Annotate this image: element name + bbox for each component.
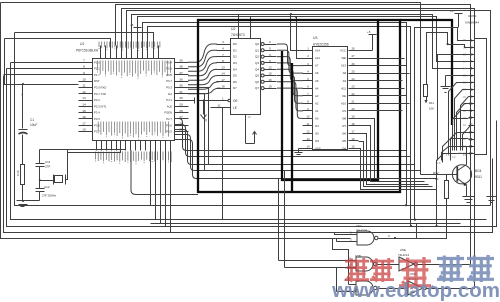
svg-text:14: 14 [221,72,225,76]
gate U5A 74HC00 [337,224,391,245]
svg-text:WE: WE [341,56,346,60]
wire top bus line 8 [148,27,411,227]
svg-text:37: 37 [179,71,183,75]
svg-text:9: 9 [83,71,85,75]
wire loop 3 [7,69,497,227]
svg-text:HY62C256: HY62C256 [313,43,329,47]
svg-text:U1: U1 [80,42,84,46]
ground U3 [295,149,303,157]
svg-text:13: 13 [221,65,225,69]
svg-text:A12: A12 [315,56,320,60]
wire top bus line 5 [132,15,469,69]
svg-text:XINBNJ44: XINBNJ44 [465,21,479,25]
svg-text:7: 7 [471,81,473,85]
svg-text:I03: I03 [315,139,319,143]
svg-text:Q0: Q0 [255,42,259,46]
wire U2 VCC from top bus [238,15,240,39]
svg-text:A11: A11 [341,86,346,90]
svg-text:12: 12 [306,130,310,134]
svg-text:D0: D0 [233,42,237,46]
svg-text:28: 28 [179,109,183,113]
svg-text:A8: A8 [343,71,347,75]
svg-text:U2: U2 [231,27,235,31]
svg-text:A5: A5 [315,79,319,83]
svg-text:19: 19 [82,128,86,132]
svg-text:D1: D1 [233,48,237,52]
svg-text:14: 14 [469,130,473,134]
svg-text:Q3: Q3 [255,61,259,65]
svg-text:16: 16 [268,78,272,82]
thick bus rect outer [198,20,400,192]
wire U1 P41 net down [175,88,209,165]
svg-text:P1.0: P1.0 [94,60,100,64]
svg-text:A6: A6 [315,71,319,75]
svg-text:14: 14 [306,145,310,149]
svg-text:17: 17 [82,121,86,125]
wire loop 2 [4,76,493,233]
svg-text:P3.2: P3.2 [94,98,100,102]
svg-text:74HC573: 74HC573 [231,33,245,37]
wire crystal to U1 [23,150,126,201]
wire loop 4 [11,63,487,220]
svg-text:11: 11 [469,109,473,113]
svg-text:I05: I05 [342,139,346,143]
svg-text:39: 39 [179,58,183,62]
watermark red characters [345,257,431,289]
svg-text:+5: +5 [130,23,134,27]
svg-text:I06: I06 [342,132,346,136]
wire U5A inputs [335,233,341,242]
svg-text:C12: C12 [44,185,50,189]
wire U3 right nets [359,59,437,190]
gate U5B 74HC00 [279,254,399,271]
power +5 U1 [130,23,142,31]
svg-text:P1.1: P1.1 [94,67,100,71]
wire U1 to U2 data fan [188,44,220,94]
wire U5B input verticals [279,171,285,268]
svg-text:11: 11 [82,84,85,88]
wire pi loop outer [415,28,469,220]
svg-text:D7: D7 [233,86,237,90]
svg-text:3: 3 [471,53,473,57]
svg-text:VSS: VSS [315,147,321,151]
connector J1 header 34pin [463,14,487,156]
svg-text:P0.4: P0.4 [166,60,172,64]
wire U1 left pin nets [4,63,79,75]
svg-text:P2.6: P2.6 [166,123,172,127]
svg-text:D2: D2 [233,55,237,59]
svg-text:17: 17 [221,78,225,82]
wire U1 bottom pins to bus [131,150,198,233]
wire U5A output to R12 [379,199,447,240]
svg-text:26: 26 [351,62,355,66]
svg-text:P3.6: P3.6 [94,123,100,127]
svg-text:OE: OE [233,99,238,103]
svg-text:P2.5: P2.5 [166,130,172,134]
svg-text:15: 15 [351,145,355,149]
svg-text:+5: +5 [367,30,371,34]
svg-text:A4: A4 [315,86,319,90]
svg-text:P3.3 INT1: P3.3 INT1 [94,104,107,108]
wire U1 P2 port nets right [175,119,437,179]
svg-text:16: 16 [82,115,86,119]
crystal X1 [54,175,66,185]
wire loop 5 [15,33,491,206]
svg-text:A3: A3 [315,94,319,98]
svg-text:20: 20 [351,107,355,111]
svg-text:27: 27 [351,54,355,58]
svg-text:13: 13 [82,96,86,100]
svg-text:EA: EA [168,92,172,96]
svg-text:16: 16 [469,144,473,148]
svg-text:11: 11 [307,122,310,126]
svg-text:29: 29 [179,103,183,107]
watermark blue characters [437,255,494,282]
wire top bus line 2 [116,5,471,265]
ground Q1 [463,191,475,203]
capacitor C11 [36,150,51,189]
svg-text:27P 32MHz: 27P 32MHz [42,194,57,198]
svg-text:24: 24 [351,77,355,81]
svg-text:D4: D4 [233,67,237,71]
capacitor C12 [36,185,57,201]
svg-text:38: 38 [179,65,183,69]
svg-text:Q6: Q6 [255,80,259,84]
svg-text:9: 9 [471,95,473,99]
svg-text:P3.0 RXD: P3.0 RXD [94,86,106,90]
resistor R12 [433,171,449,199]
svg-text:P3.4: P3.4 [94,111,100,115]
svg-text:D3: D3 [233,61,237,65]
capacitor C1 [19,83,79,165]
svg-text:R11: R11 [429,101,434,105]
svg-text:10uF: 10uF [30,123,37,127]
svg-text:A2: A2 [315,101,319,105]
svg-text:10K: 10K [429,107,434,111]
svg-text:VCC: VCC [340,49,346,53]
resistor R11 pullup [424,33,469,111]
svg-text:30: 30 [179,96,183,100]
svg-text:P0.7: P0.7 [166,79,172,83]
svg-text:17: 17 [351,130,355,134]
svg-text:D5: D5 [233,74,237,78]
svg-text:LE: LE [233,106,237,110]
svg-text:27P: 27P [45,165,50,169]
power -V symbol [201,101,209,123]
svg-text:4: 4 [471,60,473,64]
wire bus line mid [151,223,461,225]
svg-text:Q1: Q1 [255,48,259,52]
svg-text:P2.7: P2.7 [166,117,172,121]
svg-text:P0.6: P0.6 [166,73,172,77]
wire U5C input verticals [333,239,349,292]
junction dots [405,204,438,227]
svg-text:36: 36 [179,77,183,81]
resistor R1 [16,165,25,195]
svg-text:A0: A0 [315,116,319,120]
svg-text:I08: I08 [342,116,346,120]
svg-text:U5A: U5A [356,224,362,228]
svg-text:12: 12 [268,65,272,69]
wire Q1 collector [467,147,469,165]
svg-text:OE: OE [342,94,346,98]
svg-text:15: 15 [268,72,272,76]
svg-text:I02: I02 [315,132,319,136]
svg-text:15: 15 [82,109,86,113]
svg-text:7: 7 [83,58,85,62]
svg-text:P3.5: P3.5 [94,117,100,121]
svg-text:8: 8 [471,88,473,92]
svg-text:U5B: U5B [355,254,361,258]
svg-text:A14: A14 [315,49,320,53]
thick bus vertical [291,63,293,192]
svg-text:RST: RST [94,79,100,83]
gate U5F 74HC14 inverter [407,272,475,295]
ground left [17,195,31,207]
power +5 U3 [359,30,377,51]
svg-text:I04: I04 [342,147,346,151]
wire top bus line 6 [138,17,469,62]
wire outer loop [1,3,351,239]
wire top bus line 3 [122,9,475,289]
svg-text:1: 1 [471,38,473,42]
svg-text:5: 5 [471,67,473,71]
svg-text:10: 10 [306,115,310,119]
svg-text:CS: CS [342,109,346,113]
IC U1 microcontroller P87C51 [76,42,189,165]
svg-text:I01: I01 [315,124,319,128]
wire U3 pin2 from top bus [295,16,303,59]
transistor Q1 9013 [421,165,483,191]
IC U3 SRAM HY62C256 [303,36,359,151]
svg-text:www.edatop.com: www.edatop.com [331,279,500,302]
thick bus rect inner [282,21,378,180]
thick bus top extension [400,20,452,125]
svg-text:2: 2 [471,45,473,49]
svg-text:Q7: Q7 [255,86,259,90]
wire header bundle [437,55,471,227]
ground right edge [487,197,497,203]
svg-text:I07: I07 [342,124,346,128]
svg-text:6: 6 [471,74,473,78]
svg-text:21: 21 [351,99,355,103]
svg-text:74HC14: 74HC14 [398,253,409,257]
svg-text:11: 11 [218,104,221,108]
svg-text:74HC00: 74HC00 [356,229,367,233]
wire U1 VDD net [15,33,154,46]
svg-text:Q4: Q4 [255,67,259,71]
svg-text:C11: C11 [45,160,51,164]
svg-text:ALE: ALE [167,104,172,108]
wire U1 GND net 2 [5,39,111,46]
svg-text:PSEN: PSEN [164,111,172,115]
svg-text:1K: 1K [435,177,439,181]
svg-text:28: 28 [351,47,355,51]
svg-text:10: 10 [82,77,86,81]
svg-text:P1.7: P1.7 [94,73,100,77]
svg-text:P0.3: P0.3 [166,86,172,90]
svg-text:17: 17 [469,152,473,156]
wire U1 GND net [5,39,23,85]
svg-text:C1: C1 [30,118,34,122]
svg-text:8.2K: 8.2K [16,170,20,176]
svg-text:12: 12 [469,116,473,120]
svg-text:10: 10 [469,102,473,106]
wire LE net [211,104,231,220]
capacitor OE net [175,97,231,104]
svg-text:P3.7: P3.7 [94,130,100,134]
svg-text:A9: A9 [343,79,347,83]
svg-text:9011: 9011 [475,175,482,179]
svg-text:A10: A10 [341,101,346,105]
svg-text:19: 19 [268,84,272,88]
gate U5E 74HC14 inverter [398,248,471,271]
svg-text:A1: A1 [315,109,319,113]
wire top bus line 4 [127,11,491,206]
svg-text:23: 23 [351,84,355,88]
svg-text:U3: U3 [313,36,317,40]
svg-text:18: 18 [221,84,225,88]
svg-text:BG4: BG4 [475,169,482,173]
wire latch bottom net [246,115,257,144]
svg-text:Q2: Q2 [255,55,259,59]
IC U2 latch 74HC573 [217,27,277,115]
svg-text:Q5: Q5 [255,74,259,78]
svg-text:P3.1 TXD: P3.1 TXD [94,92,106,96]
wire U2 outputs to U3 address [277,44,303,118]
svg-text:A13: A13 [341,64,346,68]
svg-text:D6: D6 [233,80,237,84]
svg-text:P87C51GBLKA: P87C51GBLKA [76,49,99,53]
svg-text:+5: +5 [450,9,454,13]
svg-text:18: 18 [351,122,355,126]
wire U1 EA net down [175,94,205,171]
svg-text:U5E: U5E [400,248,406,252]
ground header [441,76,469,93]
svg-text:13: 13 [306,137,310,141]
svg-text:19: 19 [351,115,355,119]
wire U3 pin1 from top bus [290,13,303,51]
wire U2 GND from top bus [250,17,252,39]
svg-text:15: 15 [469,137,473,141]
svg-text:P0.5: P0.5 [166,67,172,71]
svg-text:34PIN: 34PIN [468,14,476,18]
svg-text:22: 22 [351,92,355,96]
gate U5C 74HC00 [337,278,409,295]
svg-text:14: 14 [82,103,86,107]
power +5 header [450,9,463,28]
svg-text:12: 12 [82,90,86,94]
wire top bus line 1 [1,3,421,175]
svg-text:8: 8 [83,65,85,69]
wire top bus line 7 [143,23,407,206]
svg-text:P4.1: P4.1 [166,98,172,102]
svg-text:25: 25 [351,69,355,73]
svg-text:A7: A7 [315,64,319,68]
svg-text:16: 16 [351,137,355,141]
